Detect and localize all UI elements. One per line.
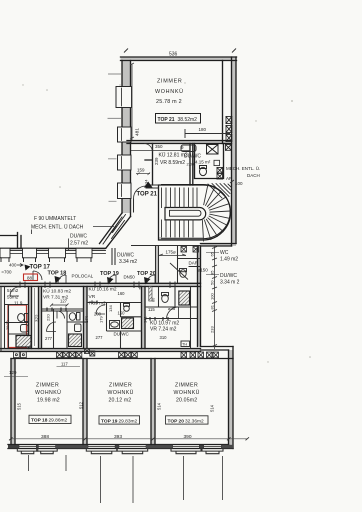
- svg-text:134: 134: [108, 305, 113, 312]
- wall infill tint: [0, 57, 237, 449]
- svg-text:29.83m2: 29.83m2: [119, 419, 138, 425]
- svg-text:514: 514: [210, 404, 215, 412]
- DU/WC 3.34 near diagonal: [117, 253, 137, 265]
- svg-text:TOP 20: TOP 20: [168, 419, 185, 425]
- TOP20 hatched box upper: [179, 291, 190, 305]
- dim 129 left: [4, 370, 28, 377]
- svg-text:38.52m2: 38.52m2: [178, 117, 198, 123]
- TOP19 small rooms texts: [89, 286, 130, 341]
- svg-text:1.49 m2: 1.49 m2: [220, 257, 238, 263]
- window sills TOP20: [171, 449, 223, 454]
- entry wall jamb ticks: [20, 282, 175, 289]
- svg-text:115: 115: [148, 307, 155, 312]
- TOP18 toilet: [69, 313, 80, 321]
- dim 180: [185, 127, 230, 138]
- shaft boxes at divider: [85, 349, 95, 357]
- right exterior wall bottom wing: [229, 347, 234, 449]
- svg-text:WOHNKÜ: WOHNKÜ: [35, 389, 61, 396]
- TOP19 toilet: [124, 304, 130, 312]
- svg-text:2.00: 2.00: [187, 162, 196, 167]
- svg-text:29.86m2: 29.86m2: [49, 418, 68, 424]
- left wall of top wing with window niches: [116, 61, 132, 217]
- svg-text:KÜ 10.83 m2: KÜ 10.83 m2: [43, 288, 71, 295]
- TH box: [181, 341, 190, 347]
- shaft boxes row under TOP19: [119, 352, 138, 358]
- svg-text:481: 481: [135, 128, 141, 136]
- right wall jog to TOP20 room: [201, 347, 234, 351]
- 2H box: [214, 160, 220, 165]
- staircase outer wall: [159, 185, 231, 241]
- svg-text:TOP 21: TOP 21: [158, 117, 175, 123]
- svg-text:WC: WC: [220, 250, 229, 256]
- svg-text:20.12 m2: 20.12 m2: [109, 398, 132, 404]
- svg-text:F 90 UMMANTELT: F 90 UMMANTELT: [34, 216, 76, 222]
- TOP18 small rooms texts: [43, 288, 71, 304]
- svg-text:3.34 m 2: 3.34 m 2: [220, 280, 240, 286]
- TOP20 texts: [148, 298, 179, 340]
- svg-text:536: 536: [169, 52, 178, 58]
- svg-text:388: 388: [41, 434, 49, 440]
- svg-text:65: 65: [210, 251, 215, 256]
- right outside dim line: [210, 246, 218, 349]
- svg-text:MECH. ENTL. Ü.: MECH. ENTL. Ü.: [226, 165, 260, 171]
- gallery top line: [0, 247, 106, 249]
- middle band bottom wall: [0, 349, 201, 352]
- svg-text:129: 129: [9, 370, 17, 375]
- svg-text:277: 277: [96, 335, 104, 340]
- bottom overall dim line: [11, 438, 248, 440]
- svg-text:MECH. ENTL. Ü DACH: MECH. ENTL. Ü DACH: [31, 224, 84, 231]
- TOP20 small rooms: [145, 287, 198, 349]
- dim 159 and 239: [136, 157, 159, 184]
- TOP17 door arc: [10, 287, 19, 296]
- shaft boxes row under TOP18: [57, 352, 82, 358]
- svg-text:393: 393: [114, 434, 122, 440]
- svg-text:512: 512: [79, 401, 84, 409]
- dim 481 vertical: [130, 63, 141, 140]
- room label TOP21 texts: [155, 79, 184, 106]
- svg-text:88: 88: [27, 276, 33, 281]
- TOP18/19 divider wall: [83, 359, 87, 445]
- TOP19 area box: [99, 416, 140, 425]
- svg-text:TOP 19: TOP 19: [101, 419, 118, 425]
- diagonal corner wall: [100, 213, 131, 248]
- svg-text:ZIMMER: ZIMMER: [157, 79, 182, 85]
- service row door arc: [144, 144, 153, 153]
- svg-text:20.05m2: 20.05m2: [176, 398, 197, 404]
- gang walls below diagonal: [112, 248, 115, 265]
- svg-text:174: 174: [84, 315, 89, 323]
- svg-text:DU/WC: DU/WC: [220, 273, 237, 279]
- TOP19 shower hatched: [122, 318, 134, 329]
- TOP20 toilet upper: [162, 293, 169, 303]
- svg-text:220: 220: [46, 314, 51, 321]
- svg-text:DU/WC: DU/WC: [70, 234, 87, 240]
- svg-text:11.9: 11.9: [14, 301, 23, 306]
- svg-text:179: 179: [99, 316, 104, 323]
- TOP20 door arc2: [167, 307, 179, 319]
- stair radial treads: [202, 185, 230, 241]
- right annotations MECH ENTL: [226, 165, 260, 186]
- svg-text:DAR: DAR: [189, 261, 199, 266]
- entry wall between gang and apartments: [0, 283, 201, 286]
- TOP18 door arc2: [57, 311, 65, 319]
- apartment divider walls in middle band: [29, 287, 146, 349]
- window sills TOP18: [17, 449, 57, 454]
- dim 117 under TOP18 boxes: [57, 362, 81, 367]
- right exterior wall middle section: [198, 246, 201, 347]
- svg-text:⌀150: ⌀150: [198, 268, 209, 273]
- TOP18 hatched box: [69, 334, 82, 347]
- TOP18 zimmer texts: [35, 383, 61, 404]
- svg-text:3.34 m2: 3.34 m2: [119, 259, 137, 265]
- svg-text:55m2: 55m2: [7, 295, 19, 300]
- hatched corner at stair top right: [208, 184, 231, 199]
- vent boxes below stairs: [181, 247, 199, 253]
- right wall jog at stair bottom: [201, 244, 237, 247]
- top exterior wall of TOP21 wing: [121, 57, 237, 61]
- shaft boxes row above TOP20 zimmer: [181, 352, 219, 358]
- svg-text:TOP 20: TOP 20: [137, 271, 156, 277]
- TOP20 area box: [166, 416, 209, 425]
- service row wall under TOP21 room: [127, 141, 232, 144]
- svg-text:127: 127: [60, 299, 68, 304]
- shaft column inner line: [222, 61, 224, 144]
- TOP18 zimmer left wall: [11, 359, 15, 445]
- service row texts: [159, 152, 211, 167]
- svg-text:32.36m2: 32.36m2: [185, 419, 204, 425]
- vent boxes right of toilet: [217, 168, 223, 180]
- svg-text:DN50: DN50: [124, 275, 136, 280]
- stair treads upper flight: [162, 188, 198, 208]
- TOP 21 door label: [137, 182, 158, 198]
- gallery pillar blocks: [0, 248, 106, 261]
- toilet below stairs: [180, 269, 187, 278]
- svg-text:AR: AR: [226, 176, 233, 181]
- TOP17 stove hatched: [16, 336, 31, 348]
- red highlight box 88: [24, 274, 38, 281]
- courtyard wall stub left: [0, 233, 21, 249]
- svg-text:117: 117: [61, 362, 68, 367]
- svg-text:4.15 m²: 4.15 m²: [195, 160, 211, 165]
- svg-text:KÜ 10.97 m2: KÜ 10.97 m2: [150, 320, 179, 327]
- svg-text:350: 350: [155, 144, 163, 149]
- svg-text:TOP 21: TOP 21: [137, 192, 158, 198]
- svg-text:76: 76: [138, 285, 143, 290]
- red rectangle highlight left: [8, 305, 27, 348]
- shaft boxes row under TOP17: [14, 352, 27, 358]
- svg-text:100: 100: [210, 293, 215, 300]
- TOP20 zimmer texts: [174, 383, 200, 404]
- TOP18 area box: [29, 415, 71, 423]
- svg-text:25.78 m 2: 25.78 m 2: [156, 99, 182, 105]
- svg-text:150: 150: [118, 311, 126, 316]
- svg-text:WOHNKÜ: WOHNKÜ: [155, 88, 184, 95]
- dim 372: [35, 288, 40, 346]
- svg-text:ZIMMER: ZIMMER: [36, 383, 59, 389]
- TOP labels row: [25, 265, 156, 285]
- svg-text:TOP 18: TOP 18: [31, 418, 48, 424]
- svg-text:DACH: DACH: [247, 173, 260, 178]
- svg-text:239: 239: [154, 157, 159, 165]
- svg-text:515: 515: [17, 402, 22, 410]
- TOP19 zimmer texts: [108, 383, 134, 404]
- gang door arcs: [58, 275, 155, 283]
- TOP21 area box: [156, 114, 201, 124]
- WC and DU/WC right texts: [206, 250, 240, 286]
- TOP17 small rooms: [1, 287, 29, 353]
- svg-text:400: 400: [9, 263, 17, 268]
- svg-text:50: 50: [210, 280, 215, 285]
- hatched wall under TOP20 label: [149, 287, 152, 302]
- svg-text:160: 160: [118, 291, 126, 296]
- TOP19 washbasin: [110, 321, 120, 329]
- svg-text:175⌀: 175⌀: [166, 250, 177, 255]
- svg-text:100: 100: [235, 181, 243, 186]
- right exterior wall upper wing: [232, 57, 237, 246]
- courtyard annotation texts: [31, 216, 114, 250]
- window sills TOP19: [86, 449, 147, 454]
- svg-text:POLOCAL: POLOCAL: [72, 274, 94, 279]
- bottom exterior wall: [8, 445, 233, 449]
- TOP18 sink: [75, 324, 82, 332]
- TOP17 toilet: [18, 314, 28, 322]
- left texts 51m2 55m2: [6, 288, 23, 330]
- TOP17 sink: [21, 325, 29, 333]
- TOP18 partitions: [42, 309, 88, 349]
- shaft boxes in right wall column: [226, 117, 232, 151]
- svg-text:ZIMMER: ZIMMER: [109, 383, 132, 389]
- svg-text:141: 141: [143, 316, 148, 323]
- rooms below staircase: [131, 246, 201, 284]
- svg-text:159: 159: [137, 168, 145, 173]
- svg-text:51m2: 51m2: [7, 288, 19, 293]
- svg-text:277: 277: [45, 336, 53, 341]
- dim 536 top: [124, 49, 236, 58]
- TOP19 door arc: [96, 305, 105, 314]
- svg-text:390: 390: [184, 434, 192, 440]
- svg-text:VR 8.59m2: VR 8.59m2: [160, 160, 185, 166]
- dim 350 row: [131, 144, 190, 151]
- svg-text:VR: VR: [89, 294, 96, 300]
- svg-text:WOHNKÜ: WOHNKÜ: [108, 389, 134, 396]
- toilet top section: [200, 166, 207, 176]
- svg-text:TH: TH: [182, 343, 187, 347]
- window center leader lines: [108, 74, 121, 201]
- 400 and 700 dims: [2, 263, 24, 275]
- svg-text:VR 7.24 m2: VR 7.24 m2: [150, 327, 177, 333]
- TOP19/20 divider wall: [151, 359, 155, 445]
- svg-text:310: 310: [160, 335, 168, 340]
- svg-text:DU/WC: DU/WC: [114, 332, 130, 337]
- zimmer rooms top line: [11, 358, 233, 360]
- partition jamb ticks middle band: [47, 301, 168, 321]
- svg-text:DU/WC: DU/WC: [117, 253, 134, 259]
- TOP21 landing walls and door: [131, 185, 159, 213]
- svg-text:81: 81: [210, 304, 215, 309]
- staircase core: [165, 208, 206, 220]
- svg-text:2.57 m2: 2.57 m2: [70, 241, 88, 247]
- svg-text:514: 514: [157, 402, 162, 410]
- svg-text:ZIMMER: ZIMMER: [175, 383, 198, 389]
- svg-text:≈700: ≈700: [2, 270, 12, 275]
- scan specks: [22, 82, 311, 362]
- TOP18 door arc: [47, 322, 57, 332]
- svg-text:233: 233: [210, 326, 215, 333]
- svg-text:372: 372: [35, 314, 40, 322]
- shower hatch box: [207, 145, 219, 155]
- TOP19 partitions: [87, 303, 142, 349]
- svg-text:19.98 m2: 19.98 m2: [37, 398, 60, 404]
- service rooms partitions (KU/VR/DU-WC row): [145, 144, 224, 186]
- svg-text:KÜ 10.16 m2: KÜ 10.16 m2: [89, 286, 117, 293]
- bathtub fixture: [181, 145, 196, 152]
- svg-text:WOHNKÜ: WOHNKÜ: [174, 389, 200, 396]
- svg-text:180: 180: [199, 127, 207, 132]
- stair treads lower flight: [162, 220, 194, 237]
- svg-text:20/20: 20/20: [6, 320, 10, 330]
- leader lines below building: [29, 455, 223, 503]
- dim 175: [159, 250, 186, 256]
